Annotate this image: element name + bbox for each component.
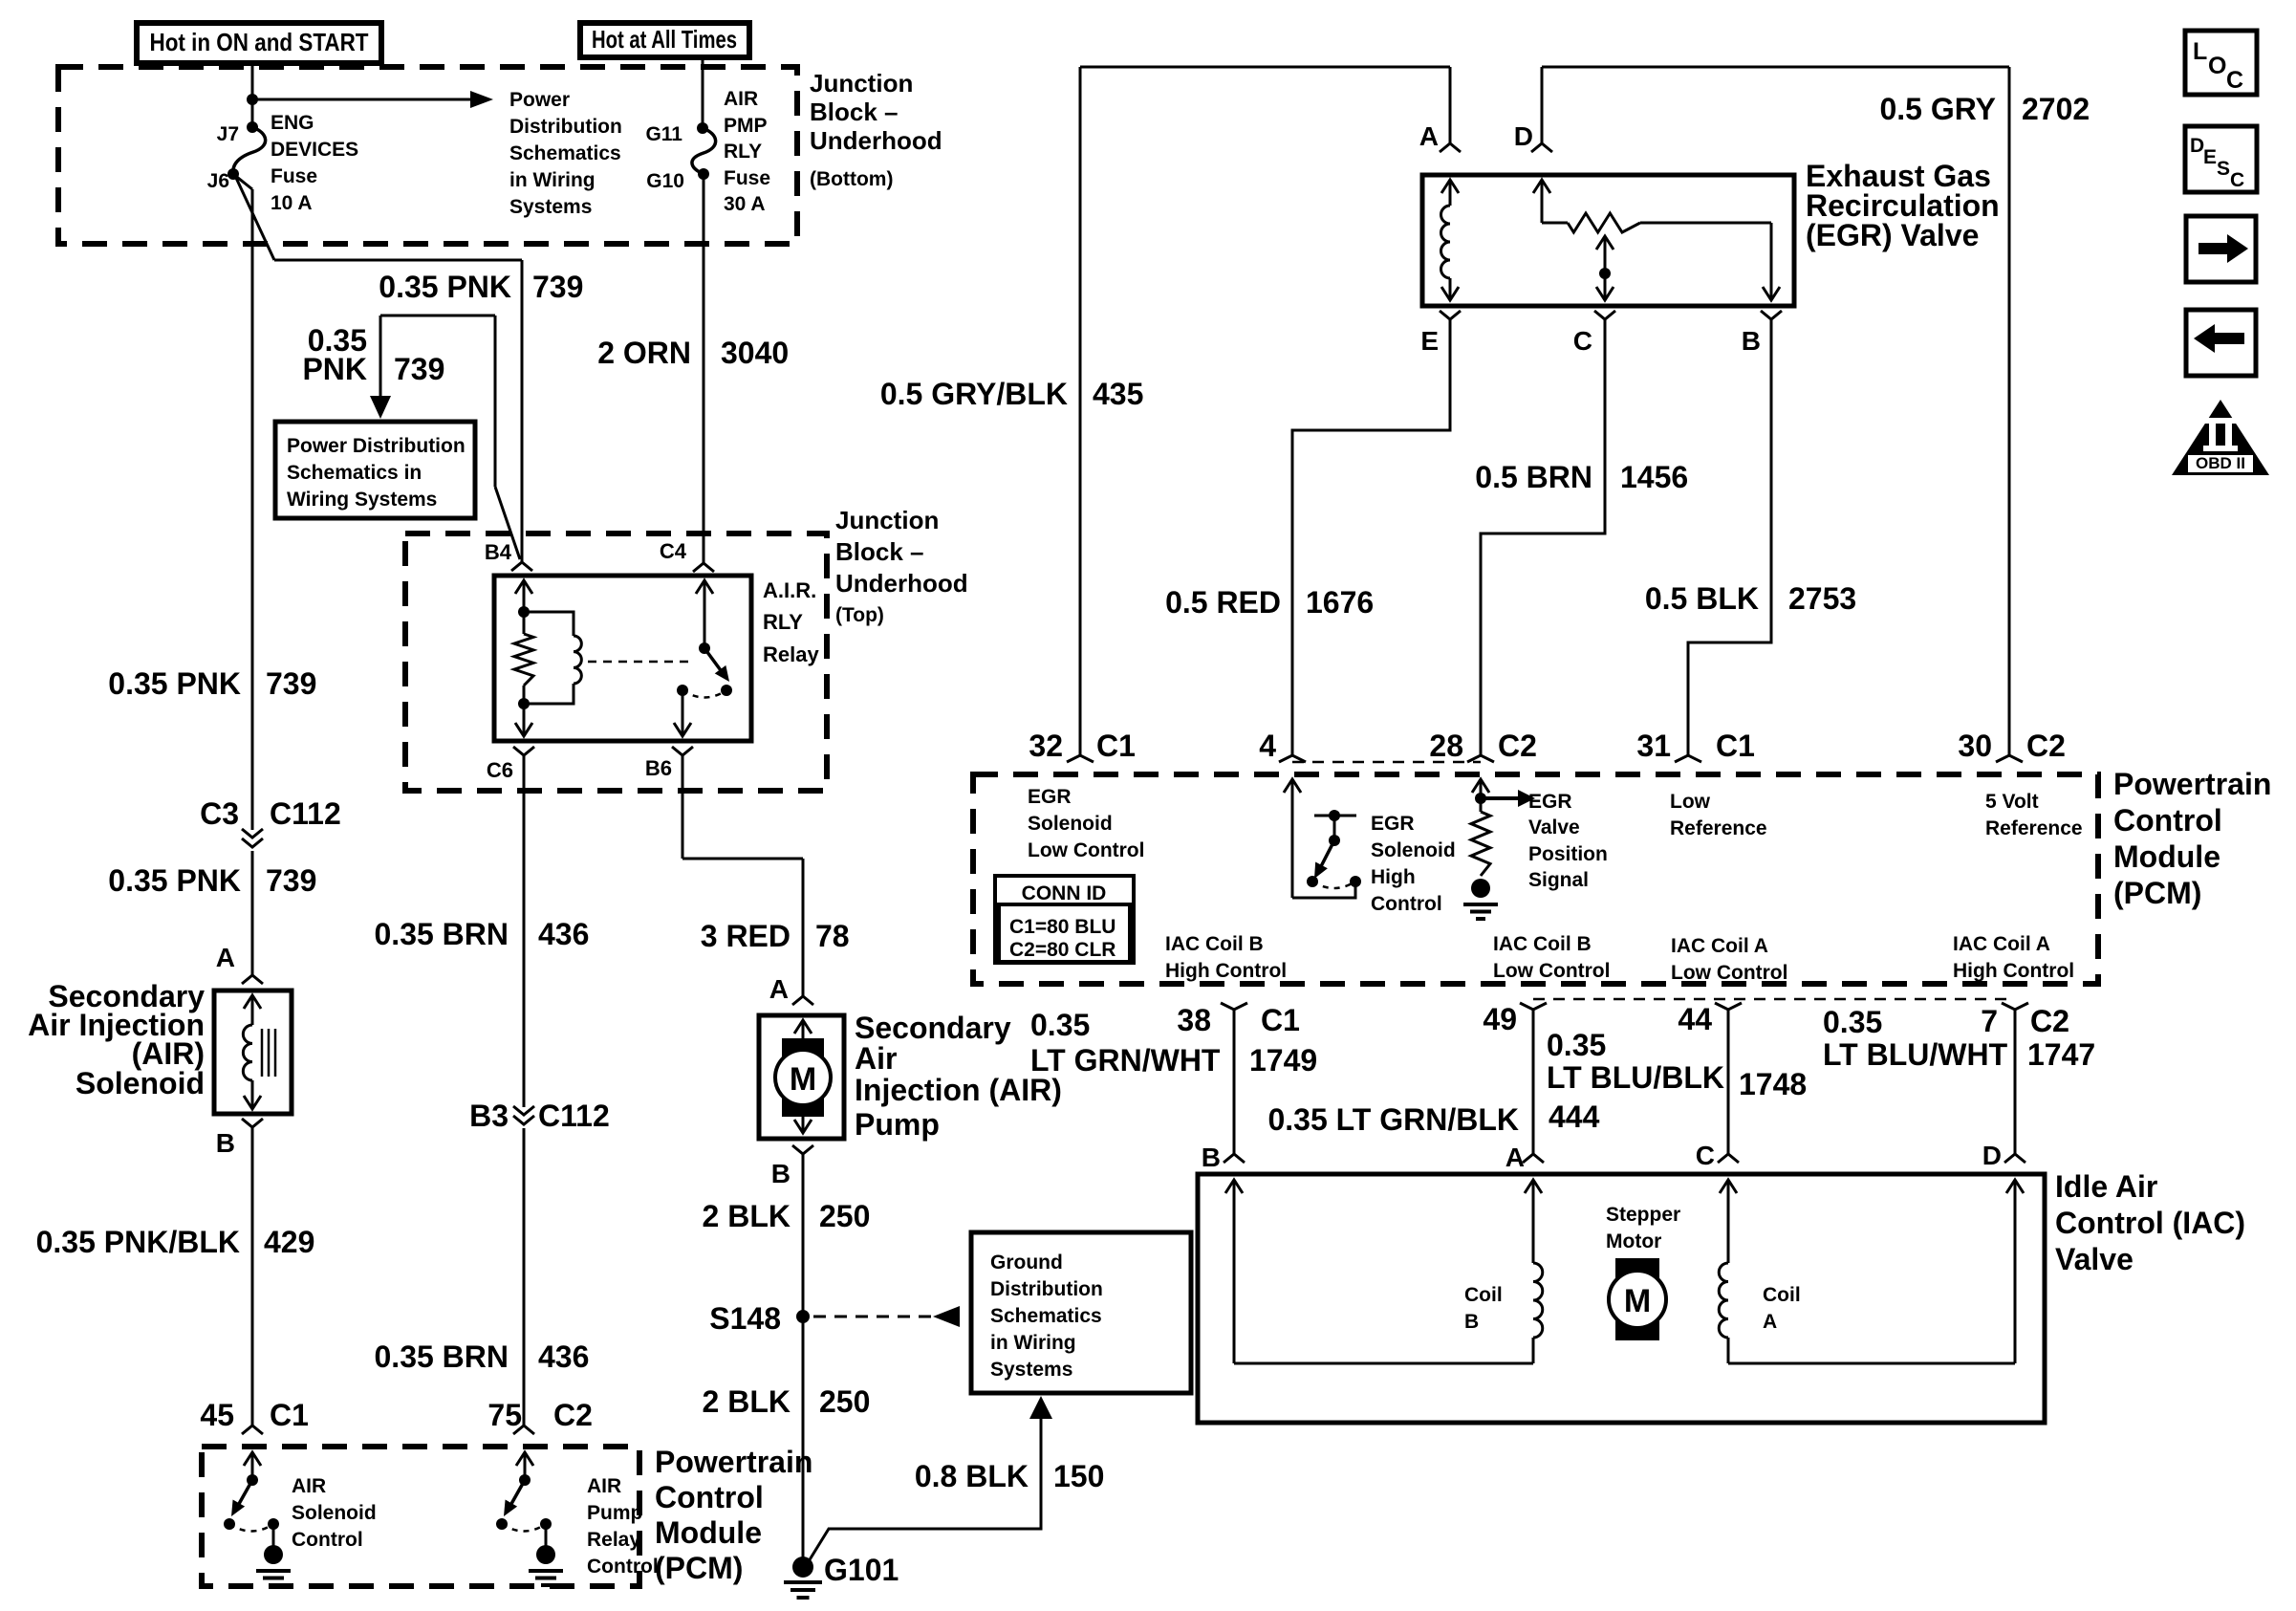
svg-text:3040: 3040 — [721, 336, 789, 370]
svg-text:B4: B4 — [485, 540, 512, 564]
svg-text:B: B — [1742, 326, 1761, 356]
svg-text:Reference: Reference — [1985, 817, 2083, 839]
svg-text:RLY: RLY — [724, 141, 762, 163]
svg-text:5 Volt: 5 Volt — [1985, 791, 2039, 813]
svg-text:D: D — [1514, 121, 1533, 151]
svg-text:Fuse: Fuse — [271, 165, 317, 187]
svg-text:2 ORN: 2 ORN — [597, 336, 691, 370]
svg-text:D: D — [1982, 1141, 2002, 1170]
svg-text:C2: C2 — [2026, 729, 2066, 763]
svg-text:28: 28 — [1429, 729, 1463, 763]
svg-text:Hot in ON and START: Hot in ON and START — [150, 28, 369, 56]
svg-text:75: 75 — [487, 1398, 522, 1432]
svg-text:Low Control: Low Control — [1493, 960, 1610, 982]
svg-text:DEVICES: DEVICES — [271, 139, 358, 161]
svg-text:30 A: 30 A — [724, 193, 766, 215]
svg-text:38: 38 — [1177, 1003, 1211, 1037]
svg-text:Control: Control — [292, 1529, 363, 1551]
svg-text:739: 739 — [266, 863, 316, 898]
svg-text:Distribution: Distribution — [509, 116, 622, 138]
svg-text:0.8 BLK: 0.8 BLK — [915, 1459, 1029, 1493]
svg-text:Fuse: Fuse — [724, 167, 770, 189]
svg-text:Coil: Coil — [1464, 1284, 1503, 1306]
svg-text:B6: B6 — [645, 756, 672, 780]
svg-text:C1: C1 — [270, 1398, 309, 1432]
svg-text:LT BLU/BLK: LT BLU/BLK — [1547, 1060, 1724, 1095]
svg-text:49: 49 — [1483, 1002, 1517, 1036]
svg-text:429: 429 — [264, 1225, 314, 1259]
svg-text:High Control: High Control — [1953, 960, 2074, 982]
svg-text:A: A — [1419, 121, 1439, 151]
svg-text:0.35 BRN: 0.35 BRN — [375, 917, 509, 951]
svg-text:Stepper: Stepper — [1606, 1204, 1680, 1226]
svg-text:1748: 1748 — [1739, 1067, 1807, 1101]
svg-text:Underhood: Underhood — [810, 126, 942, 155]
svg-text:1749: 1749 — [1249, 1043, 1317, 1078]
svg-text:IAC Coil A: IAC Coil A — [1671, 935, 1768, 957]
svg-text:IAC Coil B: IAC Coil B — [1493, 933, 1592, 955]
svg-text:0.35 PNK: 0.35 PNK — [379, 270, 511, 304]
svg-text:S148: S148 — [709, 1301, 781, 1336]
svg-text:Valve: Valve — [1528, 816, 1580, 838]
svg-text:150: 150 — [1053, 1459, 1104, 1493]
svg-text:ENG: ENG — [271, 112, 314, 134]
svg-text:1456: 1456 — [1620, 460, 1688, 494]
svg-text:C4: C4 — [660, 539, 687, 563]
svg-text:LT GRN/WHT: LT GRN/WHT — [1030, 1043, 1221, 1078]
svg-text:L: L — [2193, 38, 2207, 65]
svg-text:Relay: Relay — [763, 642, 819, 666]
svg-text:Junction: Junction — [810, 69, 913, 98]
svg-text:Power Distribution: Power Distribution — [287, 435, 466, 457]
svg-text:O: O — [2208, 53, 2226, 79]
svg-text:B3: B3 — [469, 1099, 509, 1133]
svg-text:Solenoid: Solenoid — [76, 1066, 205, 1100]
svg-text:C112: C112 — [270, 796, 341, 831]
svg-text:Low Control: Low Control — [1671, 962, 1787, 984]
svg-text:A: A — [769, 974, 789, 1004]
svg-text:Solenoid: Solenoid — [1028, 813, 1113, 835]
svg-text:PNK: PNK — [302, 352, 367, 386]
svg-text:4: 4 — [1259, 729, 1276, 763]
svg-text:0.35: 0.35 — [1030, 1008, 1090, 1042]
svg-text:Junction: Junction — [835, 506, 939, 534]
svg-text:(PCM): (PCM) — [2113, 876, 2201, 910]
svg-text:0.35 LT GRN/BLK: 0.35 LT GRN/BLK — [1267, 1102, 1519, 1137]
svg-text:M: M — [790, 1061, 816, 1098]
svg-text:Pump: Pump — [855, 1107, 940, 1142]
svg-text:Block –: Block – — [835, 537, 924, 566]
svg-text:0.35 BRN: 0.35 BRN — [375, 1339, 509, 1374]
svg-text:(PCM): (PCM) — [655, 1551, 743, 1585]
svg-text:Module: Module — [655, 1515, 762, 1550]
svg-text:C: C — [2230, 169, 2244, 191]
svg-text:Systems: Systems — [509, 196, 592, 218]
svg-text:Signal: Signal — [1528, 869, 1589, 891]
svg-text:AIR: AIR — [292, 1475, 326, 1497]
svg-text:RLY: RLY — [763, 610, 803, 634]
svg-text:High Control: High Control — [1165, 960, 1287, 982]
svg-text:Solenoid: Solenoid — [1371, 839, 1456, 861]
svg-text:C: C — [2226, 67, 2243, 94]
svg-text:PMP: PMP — [724, 115, 768, 137]
svg-text:AIR: AIR — [724, 88, 758, 110]
svg-text:444: 444 — [1549, 1099, 1600, 1134]
svg-text:Relay: Relay — [587, 1529, 640, 1551]
svg-text:in Wiring: in Wiring — [990, 1332, 1076, 1354]
svg-text:Low: Low — [1670, 791, 1711, 813]
svg-text:2753: 2753 — [1788, 581, 1856, 616]
svg-text:30: 30 — [1958, 729, 1992, 763]
svg-text:C2: C2 — [2030, 1004, 2069, 1038]
svg-text:C1: C1 — [1716, 729, 1755, 763]
svg-text:2 BLK: 2 BLK — [703, 1199, 791, 1233]
svg-text:Underhood: Underhood — [835, 569, 968, 598]
svg-text:Reference: Reference — [1670, 817, 1767, 839]
svg-text:EGR: EGR — [1371, 813, 1415, 835]
svg-text:C: C — [1696, 1141, 1715, 1170]
svg-text:E: E — [2203, 146, 2217, 168]
svg-text:0.35 PNK/BLK: 0.35 PNK/BLK — [36, 1225, 240, 1259]
svg-text:Control: Control — [2113, 803, 2222, 838]
svg-text:AIR: AIR — [587, 1475, 621, 1497]
svg-text:Motor: Motor — [1606, 1230, 1661, 1252]
svg-text:Powertrain: Powertrain — [2113, 767, 2271, 801]
svg-text:C2: C2 — [1498, 729, 1537, 763]
svg-text:2 BLK: 2 BLK — [703, 1384, 791, 1419]
svg-text:250: 250 — [819, 1384, 870, 1419]
svg-text:Block –: Block – — [810, 98, 899, 126]
svg-text:B: B — [1202, 1143, 1221, 1172]
svg-text:Solenoid: Solenoid — [292, 1502, 377, 1524]
svg-text:Distribution: Distribution — [990, 1278, 1103, 1300]
svg-text:Coil: Coil — [1763, 1284, 1801, 1306]
svg-text:B: B — [216, 1128, 235, 1158]
svg-text:B: B — [1464, 1311, 1479, 1333]
svg-text:in Wiring: in Wiring — [509, 169, 596, 191]
svg-text:EGR: EGR — [1028, 786, 1072, 808]
svg-text:739: 739 — [532, 270, 583, 304]
svg-text:32: 32 — [1029, 729, 1063, 763]
svg-text:A: A — [216, 943, 235, 972]
svg-text:B: B — [771, 1159, 791, 1188]
svg-text:(EGR) Valve: (EGR) Valve — [1806, 218, 1979, 252]
svg-text:3 RED: 3 RED — [701, 919, 791, 953]
svg-text:(Top): (Top) — [835, 604, 884, 626]
svg-text:Idle Air: Idle Air — [2055, 1169, 2157, 1204]
svg-text:0.5 GRY/BLK: 0.5 GRY/BLK — [880, 377, 1068, 411]
svg-text:C1: C1 — [1261, 1003, 1300, 1037]
svg-text:S: S — [2217, 158, 2230, 180]
svg-text:739: 739 — [394, 352, 444, 386]
svg-text:1747: 1747 — [2027, 1037, 2095, 1072]
svg-text:Control: Control — [655, 1480, 764, 1514]
svg-text:CONN ID: CONN ID — [1022, 882, 1107, 904]
svg-text:0.5 BLK: 0.5 BLK — [1645, 581, 1759, 616]
svg-text:2702: 2702 — [2022, 92, 2090, 126]
svg-text:Low Control: Low Control — [1028, 839, 1144, 861]
svg-text:436: 436 — [538, 917, 589, 951]
svg-text:0.5 GRY: 0.5 GRY — [1879, 92, 1996, 126]
svg-text:0.5 BRN: 0.5 BRN — [1475, 460, 1592, 494]
svg-text:A: A — [1763, 1311, 1777, 1333]
svg-text:44: 44 — [1678, 1002, 1712, 1036]
svg-text:Control: Control — [587, 1556, 659, 1578]
svg-text:Pump: Pump — [587, 1502, 642, 1524]
svg-text:435: 435 — [1093, 377, 1143, 411]
svg-text:0.35: 0.35 — [1823, 1005, 1882, 1039]
svg-text:EGR: EGR — [1528, 791, 1572, 813]
svg-text:0.35 PNK: 0.35 PNK — [108, 863, 241, 898]
svg-text:0.35: 0.35 — [1547, 1028, 1606, 1062]
svg-text:IAC Coil A: IAC Coil A — [1953, 933, 2050, 955]
svg-text:10 A: 10 A — [271, 192, 313, 214]
svg-text:G11: G11 — [645, 123, 682, 145]
svg-text:High: High — [1371, 866, 1416, 888]
svg-text:0.35 PNK: 0.35 PNK — [108, 666, 241, 701]
svg-text:1676: 1676 — [1306, 585, 1374, 620]
svg-text:45: 45 — [200, 1398, 234, 1432]
svg-text:C3: C3 — [200, 796, 239, 831]
svg-text:IAC Coil B: IAC Coil B — [1165, 933, 1264, 955]
svg-text:7: 7 — [1981, 1004, 1998, 1038]
svg-text:Secondary: Secondary — [855, 1011, 1011, 1045]
svg-text:31: 31 — [1636, 729, 1671, 763]
svg-text:C6: C6 — [487, 758, 513, 782]
svg-text:Wiring Systems: Wiring Systems — [287, 489, 437, 511]
svg-text:E: E — [1420, 326, 1439, 356]
svg-text:Module: Module — [2113, 839, 2220, 874]
svg-text:A: A — [1505, 1143, 1525, 1172]
svg-text:Powertrain: Powertrain — [655, 1445, 812, 1479]
svg-text:OBD II: OBD II — [2196, 454, 2245, 472]
svg-text:(Bottom): (Bottom) — [810, 168, 893, 190]
svg-text:78: 78 — [815, 919, 850, 953]
svg-text:Ground: Ground — [990, 1252, 1063, 1274]
svg-text:G101: G101 — [824, 1553, 899, 1587]
svg-text:Hot at All Times: Hot at All Times — [592, 25, 737, 54]
svg-text:Control: Control — [1371, 893, 1442, 915]
svg-text:250: 250 — [819, 1199, 870, 1233]
svg-text:C1=80 BLU: C1=80 BLU — [1009, 916, 1116, 938]
svg-text:J7: J7 — [217, 123, 239, 145]
svg-text:Systems: Systems — [990, 1359, 1072, 1381]
svg-text:C112: C112 — [538, 1099, 610, 1133]
svg-text:Position: Position — [1528, 843, 1608, 865]
svg-text:Schematics in: Schematics in — [287, 462, 422, 484]
svg-text:A.I.R.: A.I.R. — [763, 578, 816, 602]
svg-text:Power: Power — [509, 89, 570, 111]
svg-text:Schematics: Schematics — [990, 1305, 1102, 1327]
svg-text:436: 436 — [538, 1339, 589, 1374]
svg-text:Air: Air — [855, 1041, 897, 1076]
svg-text:C2=80 CLR: C2=80 CLR — [1009, 939, 1116, 961]
svg-text:G10: G10 — [646, 170, 684, 192]
svg-text:D: D — [2190, 135, 2204, 157]
svg-text:J6: J6 — [207, 170, 229, 192]
svg-text:Valve: Valve — [2055, 1242, 2134, 1276]
svg-text:C2: C2 — [553, 1398, 593, 1432]
svg-text:Injection (AIR): Injection (AIR) — [855, 1073, 1062, 1107]
svg-text:M: M — [1624, 1283, 1651, 1319]
svg-text:739: 739 — [266, 666, 316, 701]
svg-text:0.5 RED: 0.5 RED — [1165, 585, 1281, 620]
svg-text:Schematics: Schematics — [509, 142, 621, 164]
svg-text:LT BLU/WHT: LT BLU/WHT — [1823, 1037, 2008, 1072]
svg-text:Control (IAC): Control (IAC) — [2055, 1206, 2245, 1240]
svg-text:C1: C1 — [1096, 729, 1136, 763]
svg-text:C: C — [1573, 326, 1592, 356]
